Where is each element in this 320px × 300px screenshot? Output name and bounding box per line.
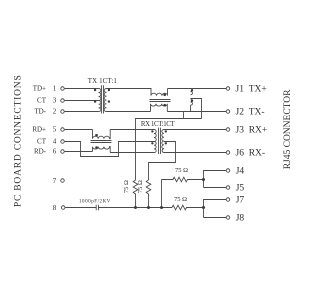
phase dot T1 secondary upper — [108, 89, 110, 91]
svg-text:J6 RX-: J6 RX- — [236, 149, 266, 159]
capacitor C1 1000pF/2KV — [95, 205, 97, 211]
terminal pin 2 — [61, 110, 65, 114]
phase dot T2 primary lower — [151, 142, 153, 144]
svg-text:75 Ω: 75 Ω — [174, 196, 187, 203]
choke L3 core — [91, 140, 112, 142]
phase dot L1 top — [163, 94, 166, 97]
svg-text:RX 1CT:1CT: RX 1CT:1CT — [141, 121, 176, 128]
terminal J8 — [226, 216, 230, 220]
phase dot L3 top — [95, 134, 98, 137]
svg-text:CT: CT — [37, 97, 47, 105]
wire choke L1 to J1 — [168, 88, 227, 90]
svg-text:PC BOARD CONNECTIONS: PC BOARD CONNECTIONS — [13, 74, 23, 207]
transformer T2 RX primary winding — [154, 130, 156, 153]
wire CT pin3 to T1 primary center tap — [65, 100, 99, 102]
phase dot T1 secondary lower — [108, 100, 110, 102]
svg-text:J8: J8 — [236, 214, 245, 224]
wire T2 secondary bottom to J6 — [164, 152, 226, 154]
svg-text:8: 8 — [53, 204, 57, 212]
terminal J2 — [226, 110, 230, 114]
phase dot T2 secondary upper — [165, 130, 167, 132]
svg-text:TD+: TD+ — [33, 85, 46, 93]
transformer T1 core — [101, 85, 103, 113]
terminal pin 3 — [61, 99, 65, 103]
resistor R1 75 ohm vertical (TX termination) — [133, 180, 138, 208]
phase dot L2 upper — [191, 89, 193, 91]
wire T2 secondary center tap to R2 — [149, 142, 176, 181]
transformer T1 TX secondary winding — [104, 89, 106, 112]
wire T2 secondary top to J3 — [164, 129, 226, 131]
phase dot T2 secondary lower — [165, 142, 167, 144]
wire choke L3 to T2 primary bottom — [110, 152, 154, 154]
wire node to J7 — [204, 200, 227, 218]
phase dot T1 primary upper — [94, 89, 96, 91]
wire T1 secondary top to choke L1 — [107, 88, 152, 90]
wire RD+ pin5 to choke L3 — [65, 129, 93, 131]
wire pin8 to capacitor C1 — [65, 207, 96, 209]
resistor R2 75 ohm vertical (RX termination) — [146, 180, 151, 208]
svg-text:4: 4 — [53, 138, 57, 146]
svg-text:TX 1CT:1: TX 1CT:1 — [88, 78, 118, 85]
wire node to J5 — [204, 187, 227, 189]
wire R3 node to bus — [161, 180, 163, 208]
junction dot R2 bus — [147, 206, 150, 209]
svg-text:J4: J4 — [236, 167, 245, 177]
svg-text:RJ45 CONNECTOR: RJ45 CONNECTOR — [283, 89, 293, 169]
svg-text:J3 RX+: J3 RX+ — [236, 126, 268, 136]
wire termination rail to R1 — [136, 119, 202, 181]
svg-text:6: 6 — [53, 148, 57, 156]
terminal pin 4 — [61, 140, 65, 144]
phase dot T2 primary upper — [151, 130, 153, 132]
svg-text:2: 2 — [53, 108, 57, 116]
svg-text:RD+: RD+ — [32, 126, 46, 134]
wire TD+ pin1 to T1 primary top — [65, 88, 99, 90]
svg-text:CT: CT — [37, 138, 47, 146]
choke L1 bottom winding — [151, 104, 168, 112]
terminal pin 7 — [61, 179, 65, 183]
wire CT pin4 under choke to T2 center tap — [65, 142, 154, 157]
wire node to J4 — [204, 171, 227, 188]
terminal J6 — [226, 151, 230, 155]
svg-text:7: 7 — [53, 177, 57, 185]
wire L2 center tap step — [191, 99, 202, 119]
terminal pin 6 — [61, 150, 65, 154]
terminal J5 — [226, 186, 230, 190]
junction dot J4/J5 node — [202, 178, 205, 181]
svg-text:3: 3 — [53, 97, 57, 105]
svg-text:75 Ω: 75 Ω — [175, 167, 188, 174]
wire TD- pin2 to T1 primary bottom — [65, 111, 99, 113]
svg-text:1: 1 — [53, 85, 57, 93]
terminal pin 8 — [61, 206, 64, 210]
choke L1 top winding — [151, 89, 168, 96]
wire C1 to termination bus — [98, 207, 172, 209]
phase dot L1 bottom — [163, 104, 166, 107]
terminal pin 5 — [61, 128, 65, 132]
balun winding L2 across J1-J2 — [191, 89, 193, 112]
transformer T1 TX primary winding — [99, 89, 101, 112]
junction dot R3 bus — [160, 206, 163, 209]
terminal J1 — [226, 87, 230, 91]
terminal J4 — [226, 169, 230, 173]
svg-text:5: 5 — [53, 126, 57, 134]
transformer T2 core — [158, 128, 160, 154]
svg-text:J1 TX+: J1 TX+ — [236, 85, 267, 95]
wire choke L3 to T2 primary top — [110, 129, 154, 131]
resistor R4 75 ohm horizontal (J7/J8 termination) — [172, 205, 204, 210]
terminal pin 1 — [61, 87, 65, 91]
wire RD- pin6 to choke L3 — [65, 151, 93, 153]
svg-text:75 Ω: 75 Ω — [137, 180, 144, 193]
choke L3 top winding — [93, 130, 111, 139]
transformer T2 secondary winding — [162, 130, 164, 153]
terminal J3 — [226, 128, 230, 132]
phase dot L2 lower — [191, 100, 193, 102]
choke L1 core — [150, 99, 171, 101]
svg-text:75 Ω: 75 Ω — [123, 180, 130, 193]
wire node to J8 — [204, 217, 227, 219]
resistor R3 75 ohm horizontal (J4/J5 termination) — [162, 177, 204, 182]
junction dot R1 bus — [134, 206, 137, 209]
wire choke L1 to J2 — [167, 111, 226, 113]
svg-text:RD-: RD- — [34, 148, 47, 156]
choke L3 bottom winding — [93, 147, 111, 153]
wire T1 secondary bottom to choke L1 — [107, 111, 151, 113]
terminal J7 — [226, 198, 230, 202]
svg-text:J2 TX-: J2 TX- — [236, 108, 265, 118]
junction dot J7/J8 node — [202, 206, 205, 209]
svg-text:1000pF/2KV: 1000pF/2KV — [79, 199, 111, 204]
svg-text:J5: J5 — [236, 184, 245, 194]
phase dot T1 primary lower — [94, 100, 96, 102]
svg-text:TD-: TD- — [34, 108, 46, 116]
wire J2 drop to termination rail — [183, 112, 185, 119]
svg-text:J7: J7 — [236, 196, 245, 206]
phase dot L3 bottom — [95, 146, 98, 149]
